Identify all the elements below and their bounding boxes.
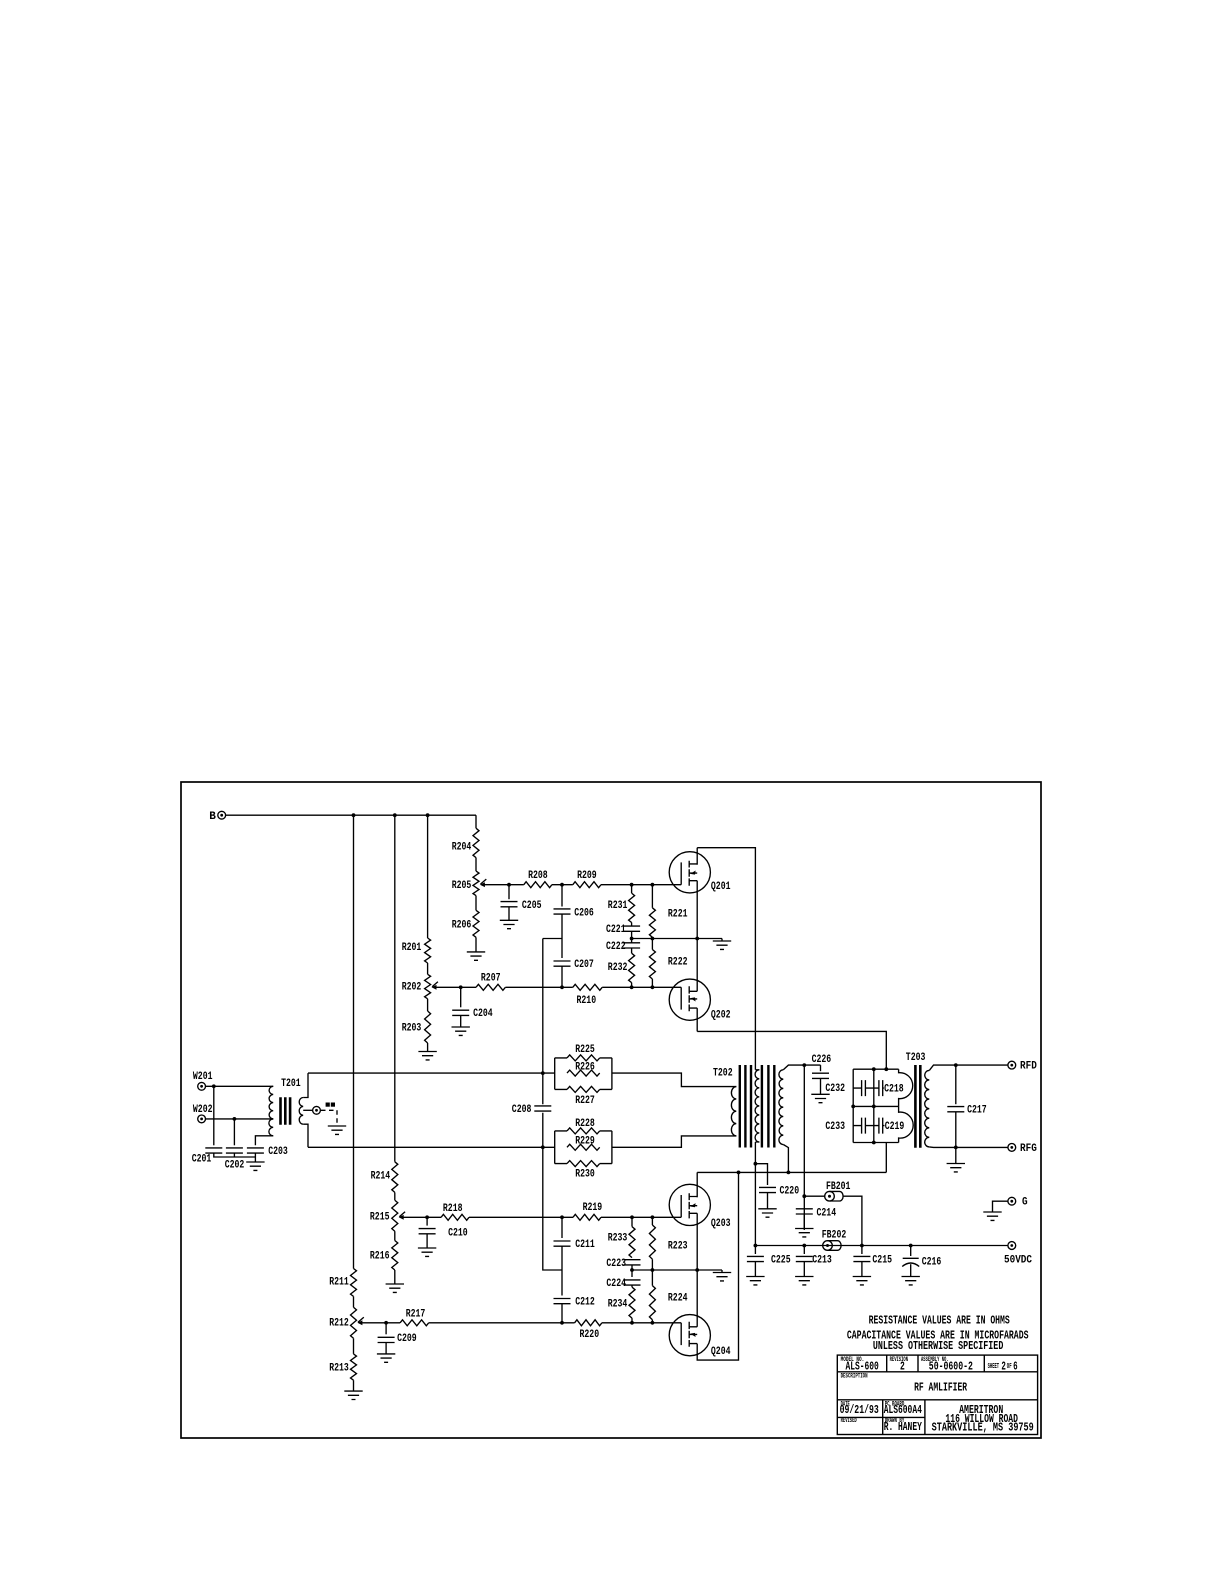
resistor R218 [441, 1214, 469, 1220]
svg-text:SHEET: SHEET [988, 1363, 1000, 1371]
svg-text:C232: C232 [825, 1083, 845, 1095]
T203 cap row leads lower [853, 1125, 898, 1127]
wire riser to T203 bottom rail [885, 1143, 887, 1173]
wire R220 to Q204 gate [602, 1322, 653, 1324]
wire R233 top lead [631, 1217, 633, 1226]
svg-text:C217: C217 [967, 1104, 987, 1116]
wire bus x=427.6 down to R201 [427, 815, 429, 938]
junction C206 top [560, 883, 564, 887]
resistor R211 [351, 1269, 357, 1297]
svg-text:C201: C201 [192, 1153, 212, 1165]
ferrite bead FB202 [823, 1241, 841, 1251]
junction R223 top [651, 1215, 655, 1219]
svg-text:W201: W201 [193, 1071, 213, 1083]
junction C201 top [212, 1084, 216, 1088]
wire T202 secondary bottom riser [783, 1145, 788, 1173]
transformer T202 core left [740, 1065, 751, 1148]
wire W202 to T201 primary tap [205, 1118, 273, 1120]
svg-text:2: 2 [900, 1361, 905, 1374]
junction C207 bottom [560, 985, 564, 989]
R205 wiper arrow [480, 879, 486, 887]
T203 cap row leads upper [853, 1087, 898, 1089]
svg-text:C202: C202 [225, 1160, 245, 1172]
capacitor C221 [631, 923, 633, 927]
T203 input box left vertical [852, 1069, 854, 1142]
terminal RFG [1008, 1144, 1016, 1152]
wire step to C220 [755, 1164, 767, 1185]
wire R210 to Q202 gate [602, 986, 652, 988]
wire R221 top lead [651, 885, 653, 908]
svg-text:C213: C213 [812, 1254, 832, 1266]
wire W201 to T201 primary top [205, 1085, 273, 1087]
junction center-bottom step [754, 1162, 758, 1166]
svg-text:R206: R206 [452, 919, 472, 931]
wire T202 center bottom to 50VDC [754, 1142, 756, 1246]
resistor R210 [573, 984, 602, 990]
resistor R206 [473, 910, 479, 937]
wire C211 to node Y [561, 1246, 563, 1270]
transformer T202 core right [762, 1065, 774, 1148]
wire R234 bottom lead [631, 1318, 633, 1323]
resistor R225 [567, 1055, 600, 1061]
terminal T201 tap test point [313, 1106, 321, 1114]
svg-text:C203: C203 [268, 1146, 288, 1158]
svg-text:R230: R230 [575, 1169, 595, 1181]
wire Q203 source to mid junction 2 [696, 1213, 698, 1327]
wire T203 secondary bottom to RFG [929, 1146, 1008, 1149]
wire T202 secondary top lead [783, 1065, 820, 1070]
wire R223 top lead [651, 1217, 653, 1225]
junction R233 top [630, 1215, 634, 1219]
capacitor C207 [561, 939, 563, 959]
svg-text:STARKVILLE, MS 39759: STARKVILLE, MS 39759 [932, 1422, 1034, 1435]
svg-text:R210: R210 [577, 995, 597, 1007]
wire R202 wiper to R207 [435, 986, 476, 988]
resistor R227 [567, 1086, 600, 1092]
svg-text:R222: R222 [668, 956, 688, 968]
wire Q201 drain vertical [696, 848, 698, 865]
wire R204-R205 [475, 858, 477, 872]
svg-text:R215: R215 [370, 1211, 390, 1223]
capacitor C211 [561, 1217, 563, 1238]
capacitor C233 [862, 1118, 866, 1134]
resistor R228 [567, 1128, 600, 1134]
wire FB201 to 50VDC line [843, 1196, 862, 1245]
svg-text:R211: R211 [329, 1276, 349, 1288]
svg-text:C212: C212 [575, 1296, 595, 1308]
resistor R201 [425, 938, 431, 963]
svg-text:RF AMLIFIER: RF AMLIFIER [914, 1382, 967, 1395]
terminal RFD [1008, 1061, 1016, 1069]
ground below C210 [418, 1248, 436, 1256]
svg-text:R227: R227 [575, 1095, 595, 1107]
svg-text:C220: C220 [780, 1186, 800, 1198]
svg-text:R234: R234 [608, 1298, 628, 1310]
junction at bus x428 [426, 813, 430, 817]
capacitor C223 [624, 1260, 641, 1265]
capacitor C218 [879, 1080, 883, 1096]
svg-text:R232: R232 [608, 962, 628, 974]
wire R209 to Q201 gate [601, 884, 652, 886]
junction R224 bottom [651, 1321, 655, 1325]
wire C213 to ground [803, 1262, 805, 1277]
junction at bus x353 [352, 813, 356, 817]
svg-text:2: 2 [1001, 1360, 1006, 1373]
junction C205 top [507, 883, 511, 887]
wire drive line 1 from group to T202 [612, 1073, 736, 1087]
wire R205 wiper to R208 [484, 884, 524, 886]
svg-text:REVISED: REVISED [841, 1417, 857, 1424]
wire R219 to Q203 gate [601, 1216, 652, 1218]
svg-text:09/21/93: 09/21/93 [840, 1404, 879, 1417]
ground below C213 [795, 1277, 813, 1285]
svg-text:R. HANEY: R. HANEY [884, 1421, 922, 1434]
junction top rail mid vertical [872, 1067, 876, 1071]
potentiometer R205 [473, 871, 479, 896]
ground below C226 [811, 1094, 829, 1102]
wire R211-R212 [353, 1296, 355, 1307]
svg-text:C207: C207 [574, 959, 594, 971]
wire capacitor bottoms bus [214, 1153, 256, 1162]
junction R221 top [651, 883, 655, 887]
wire R218 to R219 [469, 1216, 573, 1218]
ground below C217 [947, 1164, 965, 1172]
wire R206 to ground [475, 937, 477, 952]
junction C216 top [909, 1244, 913, 1248]
capacitor C226 [820, 1065, 822, 1071]
resistor R207 [476, 984, 505, 990]
junction top rail riser [884, 1067, 888, 1071]
T203 middle rail [853, 1105, 898, 1107]
transformer T201 secondary winding [299, 1098, 303, 1125]
terminal W201 [198, 1082, 206, 1090]
dashed wire from tap to ground [321, 1110, 337, 1123]
resistor R229 [567, 1144, 600, 1150]
wire C205 to ground [508, 907, 510, 921]
svg-text:R213: R213 [329, 1362, 349, 1374]
wire C214 to ground [803, 1214, 805, 1229]
wire R203 to ground [427, 1043, 429, 1052]
svg-text:R204: R204 [452, 841, 472, 853]
junction R222 bottom [651, 985, 655, 989]
wire R222 bottom lead [651, 979, 653, 987]
transformer T201 core [281, 1097, 291, 1124]
transformer T202 secondary winding [779, 1070, 783, 1145]
junction C213 top [802, 1244, 806, 1248]
svg-text:C218: C218 [884, 1083, 904, 1095]
junction C204 top [459, 985, 463, 989]
wire R208-R209 [552, 884, 573, 886]
wire C217 to RFG line [955, 1112, 957, 1148]
resistor R234 [629, 1287, 635, 1318]
capacitor C206 [561, 885, 563, 907]
svg-text:C225: C225 [771, 1254, 791, 1266]
capacitor C222 [631, 939, 633, 943]
wire C208 down to node Y [543, 1113, 562, 1270]
ground below C216 [902, 1277, 920, 1285]
junction Q204 drain riser [737, 1171, 741, 1175]
junction mid rail left [851, 1105, 855, 1109]
wire R221-R222 [651, 937, 653, 949]
wire Q203 drain vertical [696, 1172, 698, 1197]
resistor R224 [649, 1286, 655, 1320]
svg-text:50VDC: 50VDC [1004, 1254, 1032, 1266]
wire C225 to ground [754, 1262, 756, 1277]
capacitor C219 [879, 1118, 883, 1134]
svg-text:R225: R225 [575, 1044, 595, 1056]
wire C220 to ground [767, 1193, 769, 1209]
svg-text:REVISION: REVISION [890, 1356, 908, 1363]
resistor R208 [524, 882, 552, 888]
junction C202 top [233, 1117, 237, 1121]
wire node X step left [543, 938, 562, 940]
T203 winding arc lower [899, 1106, 914, 1142]
capacitor C214 [796, 1209, 813, 1214]
svg-text:C205: C205 [522, 900, 542, 912]
junction C221/C222 midpoint [630, 937, 634, 941]
wire drive line 1 from T201 to R225 group [308, 1072, 555, 1074]
wire RFG line to ground [955, 1147, 957, 1163]
capacitor C212 [561, 1270, 563, 1296]
wire C222 to R232 [631, 948, 633, 953]
title block table [837, 1355, 1037, 1434]
ground for T201 tap [328, 1126, 346, 1134]
wire Q202 drain down [696, 1008, 698, 1031]
svg-text:50-0600-2: 50-0600-2 [929, 1361, 973, 1374]
capacitor C217 [955, 1065, 957, 1104]
ground below C214 [795, 1229, 813, 1237]
svg-text:FB202: FB202 [822, 1229, 847, 1241]
wire R202-R203 [427, 999, 429, 1011]
T203 input box middle vertical [873, 1069, 875, 1142]
svg-text:G: G [1022, 1197, 1028, 1209]
resistor R233 [629, 1227, 635, 1258]
svg-text:C223: C223 [606, 1258, 626, 1270]
potentiometer R212 [351, 1307, 357, 1338]
svg-text:R209: R209 [577, 870, 597, 882]
ferrite bead FB201 [825, 1191, 843, 1201]
transformer T202 primary winding [731, 1087, 736, 1136]
potentiometer R202 [425, 974, 431, 999]
junction C211 top [560, 1215, 564, 1219]
transformer T201 primary winding [269, 1086, 273, 1119]
resistor R223 [649, 1225, 655, 1259]
junction C208 bottom on drive line 2 [541, 1145, 545, 1149]
svg-text:R218: R218 [443, 1203, 463, 1215]
wire T201 secondary tap [303, 1109, 313, 1111]
wire mid line 2 to ground [632, 1269, 722, 1271]
resistor R226 [567, 1070, 600, 1076]
resistor R216 [392, 1241, 398, 1271]
wire C209 to ground [385, 1342, 387, 1354]
R215 wiper arrow [399, 1212, 405, 1220]
wire T201 primary bottom to C203 [255, 1136, 273, 1146]
svg-text:R228: R228 [575, 1118, 595, 1130]
junction Q203/Q204 source [695, 1268, 699, 1272]
wire Q202 drain to T203 riser [697, 1031, 886, 1069]
ground below C220 [758, 1209, 776, 1217]
resistor R232 [629, 953, 635, 982]
svg-text:R229: R229 [575, 1136, 595, 1148]
wire T201 secondary top lead [303, 1073, 308, 1097]
terminal W202 [198, 1115, 206, 1123]
wire C210 to ground [426, 1234, 428, 1248]
wire C224 to R234 [631, 1285, 633, 1287]
wire drive line 2 from group to T202 [612, 1136, 736, 1147]
svg-text:FB201: FB201 [826, 1181, 851, 1193]
svg-text:R223: R223 [668, 1240, 688, 1252]
potentiometer R215 [392, 1200, 398, 1231]
transistor Q201 [652, 852, 710, 893]
svg-text:R224: R224 [668, 1292, 688, 1304]
transistor Q203 [652, 1184, 710, 1225]
terminal 50VDC [1008, 1242, 1016, 1250]
wire R216 to ground [394, 1270, 396, 1284]
T203 bottom rail [853, 1142, 898, 1144]
wire Q201 source to mid junction [696, 881, 698, 992]
svg-text:R212: R212 [329, 1317, 349, 1329]
wire B bus horizontal [225, 814, 476, 816]
resistor R209 [573, 882, 601, 888]
T203 top rail [853, 1068, 898, 1070]
junction FB201/C215 [860, 1244, 864, 1248]
capacitor C205 [508, 885, 510, 900]
transistor Q202 [652, 979, 710, 1020]
svg-text:B: B [209, 811, 216, 823]
wire R232 bottom lead [631, 983, 633, 988]
svg-text:R214: R214 [371, 1170, 391, 1182]
wire bus x=476 down to R204 [475, 815, 477, 828]
label C219 [885, 1122, 905, 1130]
ground below R203 [418, 1052, 436, 1060]
resistor R204 [473, 828, 479, 857]
svg-text:W202: W202 [193, 1104, 213, 1116]
svg-text:C215: C215 [872, 1254, 892, 1266]
ground below C225 [746, 1277, 764, 1285]
svg-text:C206: C206 [574, 907, 594, 919]
wire R205-R206 [475, 896, 477, 911]
junction C208 top on drive line 1 [541, 1071, 545, 1075]
wire G to ground [993, 1201, 1009, 1212]
wire C206 to node X [561, 914, 563, 939]
transistor Q204 [652, 1315, 710, 1356]
junction R231 top [630, 883, 634, 887]
capacitor C225 [754, 1246, 756, 1255]
drawing border frame [181, 782, 1041, 1438]
resistor R217 [400, 1320, 429, 1326]
junction 50VDC left end [754, 1244, 758, 1248]
capacitor C232 [862, 1080, 866, 1096]
wire FB201 left lead [804, 1195, 824, 1197]
wire R224 bottom lead [651, 1320, 653, 1323]
wire drive line 2 from T201 to R228 group [308, 1146, 555, 1148]
wire T201 secondary bottom lead [303, 1124, 308, 1147]
junction bottom rail middle [872, 1141, 876, 1145]
svg-text:R233: R233 [608, 1232, 628, 1244]
svg-text:Q202: Q202 [711, 1009, 731, 1021]
svg-text:C208: C208 [512, 1104, 532, 1116]
capacitor C203 [247, 1148, 264, 1153]
svg-text:Q201: Q201 [711, 881, 731, 893]
wire Q201 drain to T202 center top [697, 848, 755, 1070]
ground for G terminal [983, 1212, 1001, 1220]
R202 wiper arrow [432, 982, 438, 990]
transformer T202 center winding [755, 1070, 759, 1142]
capacitor C208 [534, 1106, 551, 1111]
svg-text:6: 6 [1013, 1360, 1018, 1373]
resistor R230 [567, 1161, 600, 1167]
svg-text:R220: R220 [580, 1329, 600, 1341]
capacitor C210 [426, 1217, 428, 1225]
ground below C209 [377, 1354, 395, 1362]
ground below C205 [500, 920, 518, 928]
junction T202 secondary bottom riser [787, 1171, 791, 1175]
junction at bus x395 [393, 813, 397, 817]
svg-text:C219: C219 [885, 1121, 905, 1133]
capacitor C224 [631, 1270, 633, 1277]
capacitor C216 polarized [910, 1246, 912, 1257]
ground below R206 [467, 952, 485, 960]
svg-text:R207: R207 [481, 972, 501, 984]
capacitor C204 [460, 987, 462, 1007]
R212 wiper arrow [357, 1317, 363, 1325]
wire mid line sources to ground [632, 938, 722, 940]
wire R212 wiper to R217 [361, 1322, 400, 1324]
svg-text:C211: C211 [575, 1239, 595, 1251]
svg-text:R203: R203 [402, 1022, 422, 1034]
svg-text:R208: R208 [528, 870, 548, 882]
capacitor C213 [803, 1246, 805, 1255]
wire C223 to mid line 2 [631, 1265, 633, 1270]
junction C217 bottom [954, 1146, 958, 1150]
resistor R231 [629, 893, 635, 922]
junction mid rail middle [872, 1105, 876, 1109]
wire T202 secondary top to FB201 [803, 1065, 805, 1230]
wire C216 to ground [910, 1264, 912, 1276]
junction Q201/Q202 source [695, 937, 699, 941]
svg-text:C226: C226 [812, 1054, 832, 1066]
wire C212 to gate line 4 [561, 1304, 563, 1323]
ground below R216 [386, 1284, 404, 1292]
junction C212 bottom [560, 1321, 564, 1325]
wire T203 secondary top to RFD [929, 1065, 1008, 1070]
svg-text:R221: R221 [668, 908, 688, 920]
svg-text:C224: C224 [606, 1278, 626, 1290]
resistor R203 [425, 1011, 431, 1043]
svg-text:C210: C210 [448, 1227, 468, 1239]
ground below C203 [246, 1162, 264, 1170]
wire R215-R216 [394, 1231, 396, 1240]
svg-text:C204: C204 [473, 1008, 493, 1020]
svg-text:R219: R219 [583, 1202, 603, 1214]
transformer T203 core [915, 1065, 920, 1148]
wire node X down to C208 [542, 939, 544, 1105]
capacitor C220 [759, 1187, 776, 1192]
junction C210 top [425, 1215, 429, 1219]
junction FB201 left [802, 1194, 806, 1198]
svg-text:C221: C221 [606, 924, 626, 936]
capacitor C215 [861, 1246, 863, 1255]
resistor R221 [649, 908, 655, 938]
svg-text:RFD: RFD [1020, 1061, 1037, 1073]
wire R217 to R220 [429, 1322, 575, 1324]
svg-text:R201: R201 [402, 942, 422, 954]
capacitor C201 [213, 1086, 215, 1145]
svg-text:R216: R216 [370, 1250, 390, 1262]
T203 winding arc upper [899, 1069, 913, 1106]
wire bus x=394.8 down to R214 [394, 815, 396, 1162]
svg-text:OF: OF [1007, 1363, 1012, 1371]
